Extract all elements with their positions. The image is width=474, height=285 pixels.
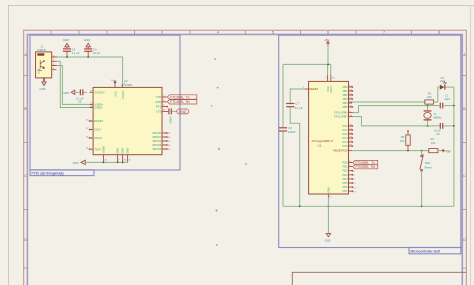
- U1 right PD pin numbers: [349, 161, 356, 194]
- svg-text:RESET: RESET: [309, 87, 318, 91]
- U2 bottom pin names vertical: [101, 146, 129, 154]
- svg-text:10k: 10k: [400, 139, 405, 143]
- svg-text:GND: GND: [126, 148, 130, 154]
- junction C2 rail: [453, 105, 455, 107]
- U1 bottom pin GND stub: [327, 194, 329, 197]
- ground arrow left of C5: [71, 90, 75, 94]
- svg-text:CBUS2: CBUS2: [152, 139, 161, 143]
- svg-text:100nF: 100nF: [288, 130, 296, 134]
- svg-text:+5v: +5v: [324, 38, 330, 42]
- wire XTAL2 row: [353, 117, 440, 126]
- svg-text:10k: 10k: [431, 141, 436, 145]
- page edge right: [470, 5, 472, 285]
- U1 left pin RESET stub: [305, 88, 309, 90]
- svg-text:U1: U1: [318, 144, 322, 148]
- global label FTDISRL_Rx right: [353, 165, 378, 169]
- frame row letters: [24, 53, 466, 242]
- global label FTDISRL_Tx right: [353, 160, 378, 165]
- svg-text:SW1: SW1: [425, 161, 431, 165]
- J1 usb trident icon: [39, 60, 45, 70]
- svg-text:220: 220: [427, 95, 432, 99]
- svg-text:VCC: VCC: [113, 91, 117, 97]
- ground symbol under J1: [42, 82, 46, 86]
- U1 right pin stubs PD: [349, 163, 353, 192]
- svg-text:TEST: TEST: [94, 147, 101, 151]
- U2 right pin numbers: [163, 95, 171, 151]
- svg-text:VCCIO: VCCIO: [121, 91, 125, 100]
- svg-text:PB4: PB4: [343, 101, 349, 105]
- U1 right PB dangling squares: [352, 86, 353, 107]
- svg-text:PC0: PC0: [342, 124, 348, 128]
- svg-text:FTDISRL_Tx: FTDISRL_Tx: [170, 95, 190, 99]
- wire right vertical rail: [453, 87, 455, 206]
- svg-text:Reset: Reset: [425, 166, 432, 170]
- svg-text:0.1 µF: 0.1 µF: [72, 51, 80, 55]
- wire PB4 to R1: [349, 101, 425, 103]
- junction R3 bottom: [407, 150, 409, 152]
- svg-text:PD7: PD7: [342, 189, 348, 193]
- svg-text:GND: GND: [121, 148, 125, 154]
- U1 top pin stubs: [328, 75, 331, 82]
- svg-text:GND: GND: [116, 148, 120, 154]
- svg-text:16MHz: 16MHz: [433, 115, 442, 119]
- resistor R3: [406, 130, 410, 150]
- IC U1 ATmega328P body: [309, 81, 349, 194]
- svg-text:10 µF: 10 µF: [93, 51, 100, 55]
- svg-text:2: 2: [106, 31, 108, 35]
- svg-text:6: 6: [327, 31, 329, 35]
- J1 pins right: [52, 57, 57, 70]
- U2 left dangling pin squares: [89, 120, 90, 150]
- junction crystal top: [427, 105, 429, 107]
- sheet FTDI usb box: [30, 35, 180, 170]
- U1 right PD pin names: [342, 161, 348, 194]
- capacitor C9 on CTS row: [168, 108, 177, 114]
- wire +5v net: [283, 46, 331, 75]
- svg-text:FTDISRL_Rx: FTDISRL_Rx: [356, 165, 376, 169]
- wire VBUS net: [57, 57, 123, 84]
- svg-text:3: 3: [161, 31, 163, 35]
- wire RESET net right: [352, 150, 429, 152]
- svg-text:CBUS4: CBUS4: [152, 147, 161, 151]
- svg-text:Y1: Y1: [433, 112, 437, 116]
- svg-text:ATmega328P-P: ATmega328P-P: [312, 139, 334, 143]
- svg-text:PB5: PB5: [343, 105, 349, 109]
- GND oval label right of C9: [177, 109, 189, 114]
- svg-text:100nF: 100nF: [169, 116, 173, 124]
- U1 right pin RESET,PC6: [349, 150, 353, 152]
- wire USB D+ net: [57, 66, 90, 105]
- capacitor C3: [63, 47, 71, 57]
- svg-text:CBUS3: CBUS3: [152, 143, 161, 147]
- svg-text:PB0: PB0: [343, 85, 349, 89]
- wire RESET to C7: [290, 89, 304, 103]
- svg-text:PB2: PB2: [343, 93, 349, 97]
- svg-text:PD1: PD1: [342, 165, 348, 169]
- svg-text:22pf: 22pf: [445, 97, 450, 101]
- svg-text:22 pF: 22 pF: [434, 128, 441, 132]
- U2 top pin numbers: [111, 80, 126, 85]
- svg-text:CBUS1: CBUS1: [152, 135, 161, 139]
- svg-text:C8: C8: [288, 126, 292, 130]
- frame row ticks left and right: [24, 76, 467, 269]
- power symbol +5v right arrow: [441, 149, 451, 153]
- svg-text:PC2: PC2: [342, 132, 348, 136]
- svg-text:0.1 µF: 0.1 µF: [295, 106, 303, 110]
- title block corner: [292, 272, 466, 285]
- wire +5v decoupling branch: [282, 64, 284, 206]
- frame column numbers: [50, 31, 440, 35]
- svg-text:PD0: PD0: [342, 161, 348, 165]
- wire U1 gnd drop: [327, 197, 329, 233]
- global label FTDISRL_Tx left: [167, 95, 197, 100]
- svg-text:1: 1: [50, 31, 52, 35]
- junction C3: [66, 56, 68, 58]
- svg-text:8: 8: [438, 31, 440, 35]
- svg-text:3V3OUT: 3V3OUT: [94, 90, 105, 94]
- J1 shield pin: [43, 78, 45, 82]
- junction C5b rail: [453, 125, 455, 127]
- svg-text:B: B: [463, 107, 465, 111]
- svg-text:FTDISRL_Rx: FTDISRL_Rx: [170, 100, 190, 104]
- U2 top pin VCC stub: [114, 82, 116, 88]
- svg-text:C5: C5: [436, 132, 440, 136]
- wire U2 ground net: [85, 161, 127, 163]
- svg-text:PD6: PD6: [342, 185, 348, 189]
- capacitor C8: [279, 127, 287, 131]
- svg-text:R2: R2: [431, 137, 435, 141]
- svg-text:PD2: PD2: [342, 169, 348, 173]
- svg-text:AGND: AGND: [101, 146, 105, 154]
- svg-text:FTDI usb thingymajig: FTDI usb thingymajig: [32, 171, 64, 175]
- svg-text:OSCO: OSCO: [94, 136, 102, 140]
- sheet FTDI usb name box: [30, 170, 94, 176]
- svg-text:RTS: RTS: [156, 105, 162, 109]
- capacitor C4: [84, 47, 92, 57]
- svg-text:GND: GND: [327, 187, 331, 193]
- svg-text:OSCI: OSCI: [94, 128, 101, 132]
- J1 shield no-connect x: [43, 79, 45, 81]
- global label FTDISRL_Rx left: [167, 100, 197, 105]
- svg-text:PC1: PC1: [342, 128, 348, 132]
- wire ground rail bottom: [283, 205, 454, 207]
- switch SW1: [420, 151, 424, 207]
- U2 bottom pin numbers: [104, 160, 131, 162]
- svg-text:GND: GND: [73, 161, 79, 165]
- svg-text:C4: C4: [93, 47, 97, 51]
- svg-text:RESET,PC6: RESET,PC6: [334, 149, 349, 153]
- svg-text:D1: D1: [441, 76, 445, 80]
- U2 top pin VCCIO stub: [122, 84, 124, 87]
- junction +5v: [327, 64, 329, 66]
- U1 right PC pin names: [342, 124, 348, 148]
- svg-text:GND: GND: [40, 87, 46, 91]
- svg-text:4: 4: [217, 31, 219, 35]
- svg-text:AVCC: AVCC: [329, 86, 333, 93]
- wire XTAL1 row: [353, 106, 440, 113]
- crystal Y1: [424, 106, 432, 126]
- U2 left pin numbers: [86, 91, 94, 150]
- U1 right PB pin numbers: [349, 85, 352, 117]
- svg-text:C5: C5: [78, 100, 82, 104]
- svg-text:PD4: PD4: [342, 177, 348, 181]
- ground arrow left U2: [81, 160, 85, 164]
- resistor R2: [429, 149, 442, 153]
- svg-text:C3: C3: [72, 47, 76, 51]
- svg-text:XTAL2/PB7: XTAL2/PB7: [334, 115, 348, 119]
- U2 VCC no-connect x: [114, 81, 116, 83]
- J1 red bar: [37, 53, 44, 55]
- U2 right pin names: [152, 95, 161, 151]
- svg-text:R3: R3: [401, 135, 405, 139]
- capacitor C7: [286, 103, 294, 107]
- frame column ticks top: [79, 30, 411, 34]
- junctions on ground net: [103, 162, 105, 164]
- svg-text:7: 7: [383, 31, 385, 35]
- U2 right pin stubs: [162, 97, 168, 149]
- power symbol above C4: [86, 43, 90, 46]
- svg-text:+5v: +5v: [445, 149, 451, 153]
- svg-text:C2: C2: [445, 93, 449, 97]
- svg-text:RXD: RXD: [156, 100, 162, 104]
- U1 top pin numbers: [325, 77, 335, 79]
- svg-text:Microcontroller stuff: Microcontroller stuff: [411, 250, 441, 254]
- U1 right pin stubs PB: [349, 87, 353, 117]
- LED D1: [440, 82, 447, 90]
- U1 right PC dangling squares: [352, 125, 353, 146]
- U2 right dangling squares: [166, 106, 168, 150]
- sheet Microcontroller box: [279, 35, 461, 247]
- svg-text:CBUS0: CBUS0: [152, 131, 161, 135]
- page edge left: [8, 5, 10, 285]
- svg-text:TXD: TXD: [156, 95, 161, 99]
- svg-text:PD5: PD5: [342, 181, 348, 185]
- resistor R1: [425, 100, 434, 104]
- J1 pin numbers: [53, 55, 55, 70]
- svg-text:USBD-: USBD-: [94, 106, 102, 110]
- svg-text:CTS: CTS: [156, 110, 162, 114]
- wire USB D- net: [57, 61, 90, 107]
- U1 right PB pin names: [334, 85, 348, 119]
- svg-text:PC3: PC3: [342, 136, 348, 140]
- U2 bottom pin drops: [104, 155, 128, 163]
- junction C4: [87, 56, 89, 58]
- svg-text:C7: C7: [295, 102, 299, 106]
- U2 left pin stubs: [90, 92, 94, 149]
- svg-text:PC4: PC4: [342, 140, 348, 144]
- stray cursor specks: [211, 58, 247, 246]
- svg-text:GND: GND: [325, 239, 331, 243]
- junction crystal bottom: [427, 125, 429, 127]
- capacitor C5: [75, 89, 87, 95]
- junctions ground rail: [299, 205, 301, 207]
- wire R1 to LED: [434, 87, 440, 102]
- svg-text:GND: GND: [179, 110, 187, 114]
- IC U2 FT232RL body: [93, 87, 162, 154]
- svg-text:PC5: PC5: [342, 144, 348, 148]
- U1 right PD dangling squares: [352, 170, 353, 192]
- U1 right pin stubs PC: [349, 126, 353, 146]
- svg-text:5: 5: [272, 31, 274, 35]
- capacitor C5b: [440, 123, 454, 129]
- sheet Microcontroller name box: [409, 248, 461, 254]
- ground symbol bottom: [326, 234, 330, 237]
- svg-text:PB3: PB3: [343, 97, 349, 101]
- svg-text:XTAL1/PB6: XTAL1/PB6: [334, 111, 348, 115]
- power symbol above C3: [65, 43, 69, 46]
- svg-text:GND: GND: [84, 38, 90, 42]
- svg-text:PD3: PD3: [342, 173, 348, 177]
- svg-text:USB: USB: [36, 68, 40, 74]
- svg-text:B: B: [25, 107, 27, 111]
- svg-text:USB-B: USB-B: [37, 48, 45, 52]
- wire C7 to ground rail: [290, 107, 300, 206]
- svg-text:RESET: RESET: [94, 119, 103, 123]
- svg-text:PB1: PB1: [343, 89, 349, 93]
- svg-text:LED: LED: [440, 79, 445, 83]
- U1 right PC pin numbers: [349, 124, 352, 146]
- power symbol +5v top: [324, 38, 330, 45]
- svg-text:GND: GND: [63, 38, 69, 42]
- U2 left pin names: [94, 90, 105, 151]
- capacitor C2: [440, 103, 454, 109]
- junction SW1 top: [421, 150, 423, 152]
- svg-text:R1: R1: [428, 91, 432, 95]
- svg-text:GND: GND: [63, 91, 69, 95]
- connector J1 USB-B body: [36, 52, 52, 78]
- wire LED to rail: [445, 86, 454, 88]
- page edge top: [8, 5, 474, 7]
